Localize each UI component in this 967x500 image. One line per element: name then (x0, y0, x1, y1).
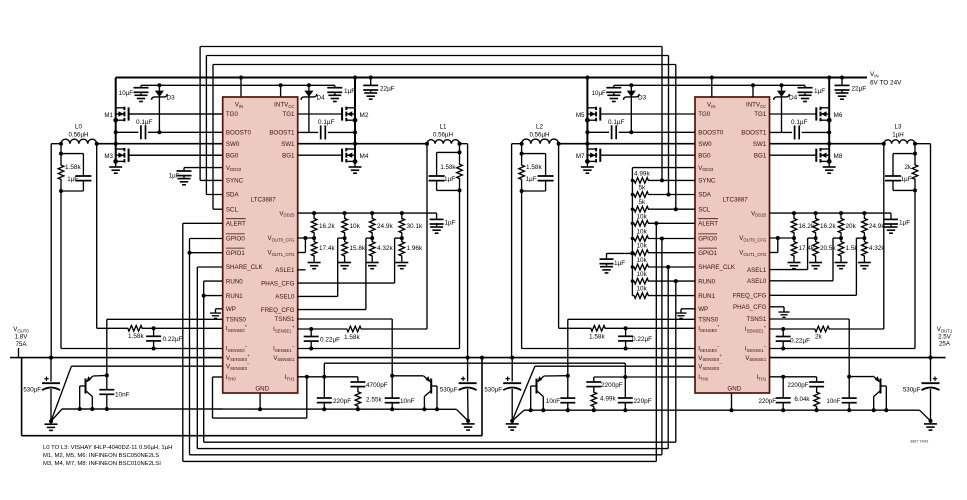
ground 22uF left (364, 90, 377, 99)
svg-text:GND: GND (255, 386, 269, 393)
svg-text:0.1µF: 0.1µF (136, 119, 153, 126)
wire INTVCC pin stub right IC (751, 83, 755, 87)
svg-text:1.58k: 1.58k (440, 164, 456, 171)
svg-text:1µF: 1µF (526, 176, 537, 183)
wire INTVCC line left (141, 84, 335, 86)
svg-text:1.58k: 1.58k (128, 333, 144, 340)
svg-text:GPIO1: GPIO1 (226, 250, 245, 257)
wire M5 drain to VIN rail (585, 76, 589, 80)
svg-text:M1, M2, M5, M6: INFINEON BSC05: M1, M2, M5, M6: INFINEON BSC050NE2LS (43, 453, 159, 459)
resistor 20.5k right (813, 238, 819, 259)
wire VSENSE1 right / VOUT1 rail (770, 357, 946, 359)
resistor 1.58k ISENSE0+ right (584, 325, 612, 331)
svg-text:10k: 10k (637, 271, 648, 278)
svg-text:RUN1: RUN1 (226, 293, 243, 300)
resistor 1.5k right (838, 238, 844, 259)
wire GND diagonal to VOUT1 gnd (920, 410, 931, 421)
svg-text:10µF: 10µF (119, 90, 133, 97)
wire ITH0 tie loop left IC (213, 376, 223, 378)
wire SDA bus top (206, 55, 668, 57)
svg-text:L1: L1 (440, 124, 447, 131)
svg-text:1µF: 1µF (814, 88, 825, 95)
capacitor 0.22uF ISENSE0 right (625, 328, 627, 336)
wire VSENSE0- diagonal left (51, 366, 71, 421)
wire ASEL0 tap left IC (338, 237, 345, 239)
svg-text:2.5V: 2.5V (938, 334, 952, 341)
svg-text:SDA: SDA (226, 192, 240, 199)
svg-text:SW0: SW0 (698, 141, 712, 148)
svg-text:SW0: SW0 (226, 141, 240, 148)
wire ALERT bus (183, 222, 223, 224)
resistor 17.4k (311, 238, 317, 259)
resistor 24.9k right (862, 213, 868, 238)
resistor 5k SDA pullup (632, 192, 650, 198)
wire ISENSE1+ to L1 (368, 328, 427, 330)
svg-text:10nF: 10nF (115, 392, 130, 399)
wire SW1 left half (298, 143, 427, 145)
wire L0 SW sense to ISENSE0+ (96, 144, 98, 329)
ground PHAS_CFG right IC (770, 306, 785, 308)
ground 530uF ch2 (506, 421, 519, 430)
wire ITH share line mid (323, 363, 325, 377)
wire SW0 left (97, 143, 223, 145)
capacitor 1uF L0 sense (61, 153, 83, 155)
capacitor 220pF ITH1 right (782, 377, 784, 398)
wire SDA left (206, 194, 222, 196)
svg-text:M1: M1 (104, 112, 113, 119)
svg-text:530µF: 530µF (484, 387, 502, 394)
svg-text:D4: D4 (789, 95, 798, 102)
diode D3 left (157, 83, 161, 87)
resistor 4.32k (369, 238, 375, 259)
svg-text:TG1: TG1 (282, 111, 295, 118)
wire SHARE_CLK bus (197, 266, 222, 268)
svg-text:16.2k: 16.2k (820, 223, 836, 230)
svg-text:0.22µF: 0.22µF (320, 337, 340, 344)
wire VOUT0_CFG tap right (770, 237, 795, 239)
svg-text:WP: WP (698, 306, 708, 313)
wire L1 sense to ISENSE1- (458, 188, 462, 192)
svg-text:TG0: TG0 (226, 111, 239, 118)
transistor M5 (586, 107, 696, 122)
wire VSENSE0- diagonal right (512, 366, 535, 421)
svg-text:ASEL1: ASEL1 (747, 267, 767, 274)
svg-text:10nF: 10nF (826, 398, 840, 405)
wire SYNC right (650, 179, 695, 181)
capacitor 220pF ITH1 left (323, 377, 325, 398)
svg-text:ALERT: ALERT (226, 221, 246, 228)
wire ASEL0 tap right IC (833, 237, 841, 239)
wire ISENSE0- to pin (154, 348, 223, 350)
svg-text:4.99k: 4.99k (634, 171, 650, 178)
wire ASEL1 tap right IC (808, 237, 816, 239)
svg-text:220pF: 220pF (634, 398, 652, 405)
wire GND line under right IC (512, 410, 524, 421)
resistor 10k RUN0 pullup (632, 278, 650, 284)
svg-text:17.4k: 17.4k (799, 245, 815, 252)
wire VOUT1_CFG tie (304, 238, 306, 253)
svg-text:0.22µF: 0.22µF (790, 338, 810, 345)
wire FREQ_CFG tap left IC (366, 237, 372, 239)
capacitor 0.1uF BOOST1 left half (298, 131, 319, 133)
svg-text:1µF: 1µF (344, 88, 355, 95)
capacitor 0.22uF ISENSE1 left (310, 329, 312, 336)
ground 15.8k (338, 260, 351, 269)
svg-text:530µF: 530µF (903, 387, 921, 394)
wire SHARE_CLK right (650, 266, 695, 268)
svg-text:SW1: SW1 (753, 141, 767, 148)
wire RUN0 bus (204, 280, 223, 282)
svg-text:10k: 10k (637, 229, 648, 236)
wire VIN rail (116, 77, 867, 79)
svg-text:TSNS1: TSNS1 (746, 316, 767, 323)
ground WP right (681, 308, 695, 310)
svg-text:30.1k: 30.1k (407, 223, 423, 230)
capacitor 530uF ch2 (511, 358, 513, 382)
svg-text:220pF: 220pF (758, 398, 776, 405)
wire L1 output down to VOUT line (458, 142, 462, 146)
resistor 20k right (838, 213, 844, 238)
capacitor 530uF ch1 (467, 358, 469, 382)
svg-text:D3: D3 (638, 95, 647, 102)
wire L2 SW sense to ISENSE0+ right (558, 144, 560, 329)
capacitor 0.22uF ISENSE1 right (782, 329, 784, 336)
capacitor 1uF VDD33 right (630, 251, 634, 255)
inductor L3 (884, 140, 915, 144)
svg-text:3887 TA06: 3887 TA06 (910, 440, 928, 444)
capacitor 1uF INTVCC left (334, 85, 336, 87)
svg-text:10k: 10k (350, 223, 361, 230)
wire M1 drain to VIN rail (115, 78, 117, 108)
svg-text:RUN0: RUN0 (698, 278, 715, 285)
svg-text:10k: 10k (637, 257, 648, 264)
svg-text:20k: 20k (846, 223, 857, 230)
transistor M7 (586, 148, 696, 163)
capacitor 10nF temp right ch1 (848, 377, 850, 398)
wire VDD33 rail right IC (632, 167, 695, 169)
wire GPIO0 right (650, 238, 695, 240)
diode D4 left half (307, 83, 311, 87)
wire SW1 right (770, 143, 884, 145)
svg-text:M5: M5 (576, 112, 585, 119)
ground M4 source (354, 161, 356, 164)
resistor 16.2k right b (813, 213, 819, 238)
wire L3 output to VOUT1 rail (913, 142, 917, 146)
svg-text:2.55k: 2.55k (366, 397, 382, 404)
svg-text:6.04k: 6.04k (794, 396, 810, 403)
resistor 10k GPIO1 pullup (632, 250, 650, 256)
wire ISENSE0+ to pin (149, 327, 223, 329)
capacitor 0.1uF BOOST1 right (770, 131, 793, 133)
wire SDA right (650, 194, 695, 196)
svg-text:15.8k: 15.8k (350, 245, 366, 252)
node L2 RC top (521, 144, 523, 154)
svg-text:22µF: 22µF (380, 86, 395, 93)
inductor L0 (61, 139, 97, 143)
wire ALERT right (650, 222, 695, 224)
capacitor 10nF temp ch1 (391, 376, 393, 398)
capacitor 530uF VOUT1 (930, 358, 932, 382)
svg-text:2k: 2k (904, 164, 911, 171)
svg-text:ASLE1: ASLE1 (275, 267, 295, 274)
transistor M4 (298, 148, 357, 163)
wire L3 sense to ISENSE1- right (913, 188, 917, 192)
svg-text:10nF: 10nF (546, 398, 560, 405)
svg-text:SW1: SW1 (281, 141, 295, 148)
capacitor 0.1uF BOOST0 (116, 131, 139, 133)
wire M1 source to SW node (115, 120, 117, 144)
svg-text:BG1: BG1 (754, 152, 767, 159)
svg-text:GND: GND (727, 386, 741, 393)
resistor 10k RUN1 pullup (632, 293, 650, 299)
svg-text:16.2k: 16.2k (319, 223, 335, 230)
resistor 24.9k (369, 213, 375, 238)
svg-text:10k: 10k (637, 243, 648, 250)
svg-text:M3, M4, M7, M8: INFINEON BSC01: M3, M4, M7, M8: INFINEON BSC010NE2LSI (43, 461, 161, 467)
wire L0 sense to ISENSE0- (59, 189, 63, 193)
ground 17.4k (308, 260, 321, 269)
capacitor 220pF ITH0 right (624, 377, 626, 398)
svg-text:PHAS_CFG: PHAS_CFG (733, 304, 767, 311)
capacitor 1uF VDD25 right (890, 213, 892, 219)
wire ITH0 right IC (594, 376, 695, 378)
svg-text:4.99k: 4.99k (600, 396, 616, 403)
svg-text:SCL: SCL (698, 206, 711, 213)
wire SCL right (650, 208, 695, 210)
wire GND diagonal to 530uF ch1 (456, 409, 468, 421)
capacitor 0.22uF ISENSE0 (153, 328, 155, 336)
svg-text:10nF: 10nF (400, 398, 415, 405)
svg-text:0.56µH: 0.56µH (433, 132, 453, 139)
svg-text:PHAS_CFG: PHAS_CFG (261, 280, 295, 287)
svg-text:TSNS1: TSNS1 (275, 316, 296, 323)
svg-text:24.9k: 24.9k (869, 223, 885, 230)
svg-text:D4: D4 (317, 95, 326, 102)
wire INTVCC pin stub left IC (279, 83, 283, 87)
resistor 1.58k L1 sense (457, 152, 463, 190)
ground M8 source (828, 161, 830, 164)
svg-text:SDA: SDA (698, 192, 712, 199)
wire ISENSE1- left IC (298, 348, 460, 350)
resistor 16.2k right a (791, 213, 797, 238)
svg-text:L0: L0 (75, 124, 82, 131)
svg-text:M4: M4 (360, 153, 369, 160)
svg-text:1.96k: 1.96k (407, 245, 423, 252)
svg-text:BOOST1: BOOST1 (741, 130, 767, 137)
svg-text:BOOST0: BOOST0 (226, 130, 252, 137)
wire GND stub left IC (259, 393, 261, 409)
resistor 4.32k right (862, 238, 868, 259)
svg-text:SHARE_CLK: SHARE_CLK (226, 264, 264, 271)
svg-text:10k: 10k (637, 286, 648, 293)
transistor M6 (770, 107, 832, 122)
resistor 1.58k ISENSE1+ (340, 326, 368, 332)
wire TSNS0 left (107, 318, 223, 320)
resistor 6.04k ITH1 right (814, 389, 820, 411)
svg-text:25A: 25A (939, 341, 951, 348)
svg-text:530µF: 530µF (440, 387, 458, 394)
svg-text:20.5k: 20.5k (820, 245, 836, 252)
wire TSNS1 left IC (298, 318, 393, 320)
ground 10uF left (135, 92, 148, 101)
wire RUN1 right (650, 295, 695, 297)
wire M3 drain (115, 144, 117, 149)
svg-text:LTC3887: LTC3887 (251, 197, 277, 204)
wire SCL left (213, 208, 223, 210)
resistor 2.55k ITH1 (355, 389, 361, 410)
svg-text:TSNS0: TSNS0 (226, 317, 247, 324)
svg-text:2200pF: 2200pF (788, 382, 809, 389)
transistor Q3 temp sense right ch0 (531, 376, 544, 397)
ground 1uF VDD33 right (600, 264, 613, 273)
inductor L1 (427, 140, 460, 144)
wire GPIO1 right (650, 252, 695, 254)
svg-text:M8: M8 (834, 153, 843, 160)
resistor 1.58k L2 sense (519, 154, 525, 191)
resistor 2k ISENSE1+ right (770, 328, 809, 330)
wire ISENSE1+ left IC (298, 328, 340, 330)
svg-text:530µF: 530µF (23, 387, 41, 394)
wire TSNS0 right IC (568, 318, 695, 320)
inductor L2 (522, 139, 559, 144)
capacitor 2200pF ITH1 right (816, 377, 818, 382)
svg-text:GPIO0: GPIO0 (226, 236, 245, 243)
ground 20.5k right (809, 260, 822, 269)
svg-text:L3: L3 (895, 124, 902, 131)
wire BG0 left (129, 154, 223, 156)
wire ITH1 left IC (298, 376, 358, 378)
svg-text:BG1: BG1 (282, 152, 295, 159)
resistor 1.58k ISENSE0+ (121, 325, 149, 331)
wire ISENSE1- right IC (770, 348, 916, 350)
capacitor 2200pF ITH0 right (593, 377, 595, 382)
wire M2 source to SW1 (354, 120, 356, 144)
svg-text:L2: L2 (536, 124, 543, 131)
svg-text:2200pF: 2200pF (601, 382, 623, 389)
ground VOUT1 gnd (924, 421, 937, 430)
resistor 16.2k (311, 213, 317, 238)
capacitor 1uF L3 sense (893, 153, 915, 155)
capacitor 1uF L1 sense (437, 151, 460, 153)
resistor 2k L3 sense (912, 154, 918, 191)
transistor Q2 temp sense ch1 (424, 376, 437, 397)
ground 4.32k (366, 260, 379, 269)
capacitor 530uF VOUT0 (50, 358, 52, 382)
svg-text:TSNS0: TSNS0 (698, 317, 719, 324)
resistor 10k SHARE_CLK pullup (632, 264, 650, 270)
wire TSNS1 right IC (770, 318, 850, 320)
transistor M2 (298, 107, 357, 122)
svg-text:4700pF: 4700pF (366, 382, 388, 389)
wire L3 SW sense to ISENSE1+ right (883, 144, 885, 329)
ground 4.32k right (858, 260, 871, 269)
node L0 RC top (60, 144, 62, 154)
svg-text:BG0: BG0 (226, 152, 239, 159)
svg-text:1µF: 1µF (444, 176, 455, 183)
resistor 1.96k (399, 238, 405, 259)
resistor 17.4k right (791, 238, 797, 259)
svg-text:4.32k: 4.32k (377, 245, 393, 252)
wire SYNC left (200, 179, 223, 181)
svg-text:FREQ_CFG: FREQ_CFG (261, 307, 295, 314)
capacitor 22uF right (840, 76, 844, 80)
svg-text:4.32k: 4.32k (869, 245, 885, 252)
resistor 1.58k L0 sense (58, 154, 64, 191)
node L3 RC top (914, 144, 916, 154)
resistor 4.99k ITH0 right (591, 389, 597, 411)
ground 1uF VDD33 left (178, 176, 191, 185)
svg-text:0.56µH: 0.56µH (529, 132, 549, 139)
ground 1uF VDD25 left (430, 224, 443, 233)
wire M6 drain to VIN rail (827, 76, 831, 80)
svg-text:BG0: BG0 (698, 152, 711, 159)
ground 17.4k right (788, 260, 801, 269)
svg-text:5k: 5k (639, 185, 647, 192)
capacitor 1uF VDD25 left (436, 213, 438, 219)
transistor M1 (114, 107, 223, 122)
wire ASLE1 stub (298, 269, 306, 271)
svg-text:SHARE_CLK: SHARE_CLK (698, 264, 736, 271)
svg-text:RUN0: RUN0 (226, 278, 243, 285)
wire M2 drain to VIN rail (353, 76, 357, 80)
resistor 10k cfg (342, 213, 348, 238)
ground 1.5k right (835, 260, 848, 269)
svg-text:1µF: 1µF (899, 220, 910, 227)
wire SW0 right (559, 143, 695, 145)
svg-text:1.58k: 1.58k (589, 334, 605, 341)
wire VOUT0 left edge down (21, 358, 23, 436)
resistor 15.8k (342, 238, 348, 259)
resistor 5k SCL pullup (632, 206, 650, 212)
svg-text:M6: M6 (834, 112, 843, 119)
wire ISENSE0+ right to pin (612, 327, 695, 329)
ground M7 source (586, 161, 588, 164)
svg-text:17.4k: 17.4k (319, 245, 335, 252)
transistor Q1 temp sense left (80, 376, 93, 397)
svg-text:0.56µH: 0.56µH (68, 132, 88, 139)
wire VDD25 left IC (298, 212, 437, 214)
svg-text:M7: M7 (576, 153, 585, 160)
ground 530uF VOUT0 (45, 421, 58, 430)
wire FREQ_CFG tap right IC (856, 237, 864, 239)
wire SCL bus top (213, 64, 676, 66)
svg-text:GPIO0: GPIO0 (698, 236, 717, 243)
svg-text:ASEL0: ASEL0 (275, 294, 295, 301)
svg-text:1µF: 1µF (614, 260, 625, 267)
wire L2 output down to VOUT line (520, 142, 524, 146)
wire L2 sense to ISENSE0- right (520, 189, 524, 193)
capacitor 1uF VDD33 left (184, 167, 223, 169)
ground 1uF INTVCC right (799, 92, 812, 101)
svg-text:M2: M2 (360, 112, 369, 119)
capacitor 0.1uF BOOST0 right (587, 131, 609, 133)
capacitor 10uF left (140, 85, 142, 87)
wire RUN1 tie left (204, 295, 223, 297)
svg-text:ASEL0: ASEL0 (747, 278, 767, 285)
wire M4 drain (354, 144, 356, 149)
ground GND ch1 (462, 421, 475, 430)
wire TG0 left (129, 113, 223, 115)
ground 1uF VDD25 right (885, 224, 898, 233)
ground 1.96k (395, 260, 408, 269)
wire VOUT1_CFG tie right (777, 238, 779, 253)
wire RUN0 right (650, 280, 695, 282)
wire GPIO1 tie left (190, 252, 223, 254)
wire VDD25 right IC (770, 212, 892, 214)
wire INTVCC line right (614, 84, 805, 86)
resistor 30.1k (399, 213, 405, 238)
op-amp U1 LTC3887 left IC (223, 97, 298, 393)
